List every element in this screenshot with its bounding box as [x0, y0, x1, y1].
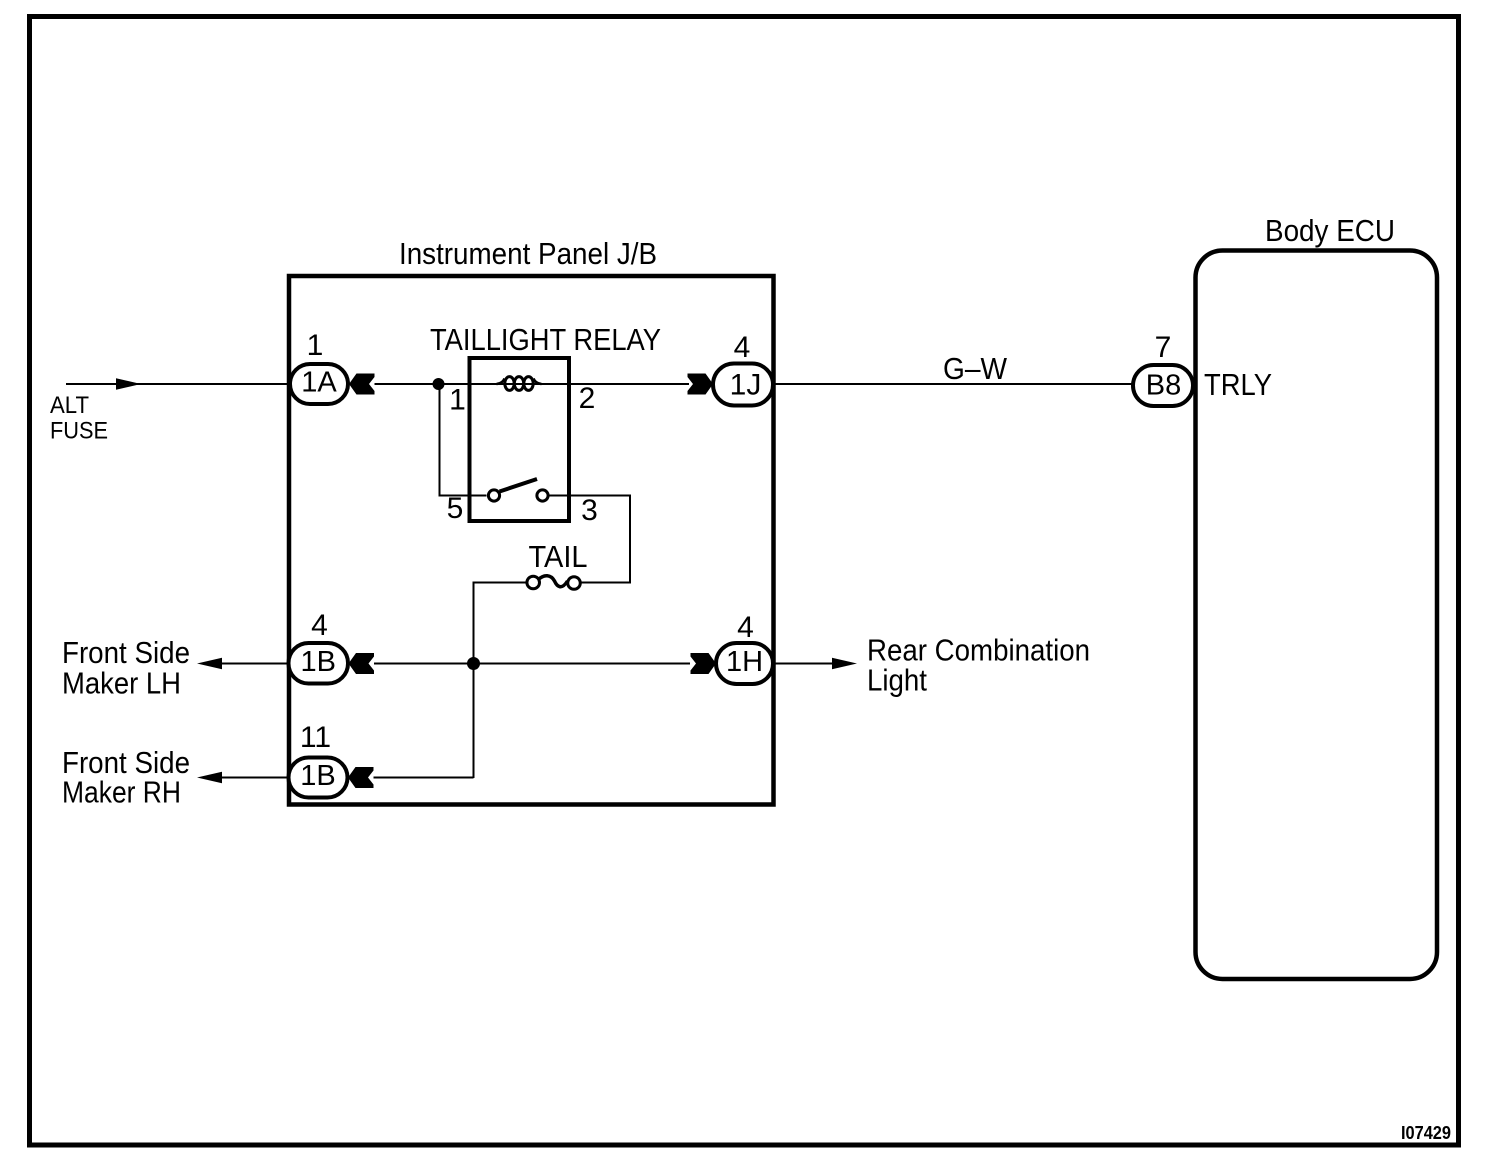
- wire 1A to relay coil to 1J: [375, 383, 690, 385]
- connector arrowhead at 1H: [691, 653, 717, 674]
- svg-text:2: 2: [579, 382, 596, 415]
- svg-text:1J: 1J: [730, 369, 762, 402]
- svg-text:3: 3: [581, 494, 598, 527]
- connector arrowhead at 1J: [688, 374, 714, 395]
- svg-text:1: 1: [449, 384, 466, 417]
- svg-text:B8: B8: [1146, 370, 1181, 402]
- svg-text:Body ECU: Body ECU: [1265, 213, 1395, 248]
- relay coil: [497, 379, 505, 385]
- connector 1B RH: [289, 758, 348, 798]
- relay switch blade: [500, 479, 538, 492]
- arrow to Front Side Maker LH: [197, 658, 222, 670]
- junction box Instrument Panel J/B: [289, 276, 774, 805]
- node junction at relay coil branch: [433, 378, 445, 390]
- wire Front Side Maker RH from 1B: [222, 777, 289, 779]
- svg-text:11: 11: [300, 721, 331, 754]
- svg-text:4: 4: [737, 611, 754, 644]
- connector 1J: [713, 364, 773, 406]
- svg-text:1: 1: [307, 329, 324, 362]
- ECU box Body ECU: [1196, 251, 1438, 980]
- svg-text:Maker RH: Maker RH: [62, 775, 181, 810]
- connector 1B LH: [289, 643, 349, 684]
- svg-text:5: 5: [447, 492, 464, 525]
- connector arrowhead at 1B RH: [348, 767, 374, 788]
- svg-text:4: 4: [734, 331, 751, 364]
- svg-text:1B: 1B: [301, 646, 336, 678]
- connector arrowhead at 1B LH: [349, 653, 375, 674]
- svg-text:Maker LH: Maker LH: [62, 666, 181, 701]
- wire junction to 1B RH: [374, 777, 474, 779]
- relay switch contact left: [488, 490, 499, 501]
- svg-text:4: 4: [311, 609, 328, 642]
- connector B8: [1133, 365, 1193, 406]
- arrow to Rear Combination Light: [832, 658, 857, 670]
- svg-text:Light: Light: [867, 663, 927, 698]
- relay TAILLIGHT RELAY box: [470, 358, 570, 521]
- svg-text:G–W: G–W: [943, 351, 1008, 386]
- connector arrowhead at 1A: [349, 374, 375, 395]
- wire coil branch down to relay switch pin 5: [440, 384, 487, 496]
- connector 1H: [716, 643, 773, 684]
- wire ALT FUSE feed to 1A: [66, 383, 290, 385]
- svg-text:I07429: I07429: [1401, 1123, 1451, 1143]
- connector 1A: [290, 364, 348, 404]
- svg-text:ALT: ALT: [50, 392, 89, 419]
- node junction at tail branch: [467, 657, 480, 670]
- wire relay pin 3 to TAIL fuse: [550, 496, 631, 583]
- wire 1H to Rear Combination Light: [773, 663, 834, 665]
- svg-text:1B: 1B: [300, 760, 335, 792]
- wire 1J to B8, net G-W: [773, 383, 1133, 385]
- wire Front Side Maker LH from 1B: [220, 663, 289, 665]
- svg-text:TAIL: TAIL: [529, 539, 588, 574]
- wire 1B to 1H through junction: [374, 663, 690, 665]
- arrow to Front Side Maker RH: [197, 772, 222, 784]
- svg-text:1A: 1A: [301, 367, 337, 399]
- relay switch contact right: [537, 490, 548, 501]
- arrow on ALT FUSE wire: [116, 378, 141, 390]
- svg-text:TAILLIGHT RELAY: TAILLIGHT RELAY: [430, 322, 661, 357]
- wire TAIL fuse left lead down to distribution node: [474, 583, 527, 779]
- svg-text:FUSE: FUSE: [50, 418, 108, 445]
- svg-text:1H: 1H: [726, 646, 763, 678]
- svg-text:7: 7: [1155, 331, 1172, 364]
- svg-text:Instrument Panel J/B: Instrument Panel J/B: [399, 236, 657, 271]
- svg-text:TRLY: TRLY: [1204, 367, 1272, 402]
